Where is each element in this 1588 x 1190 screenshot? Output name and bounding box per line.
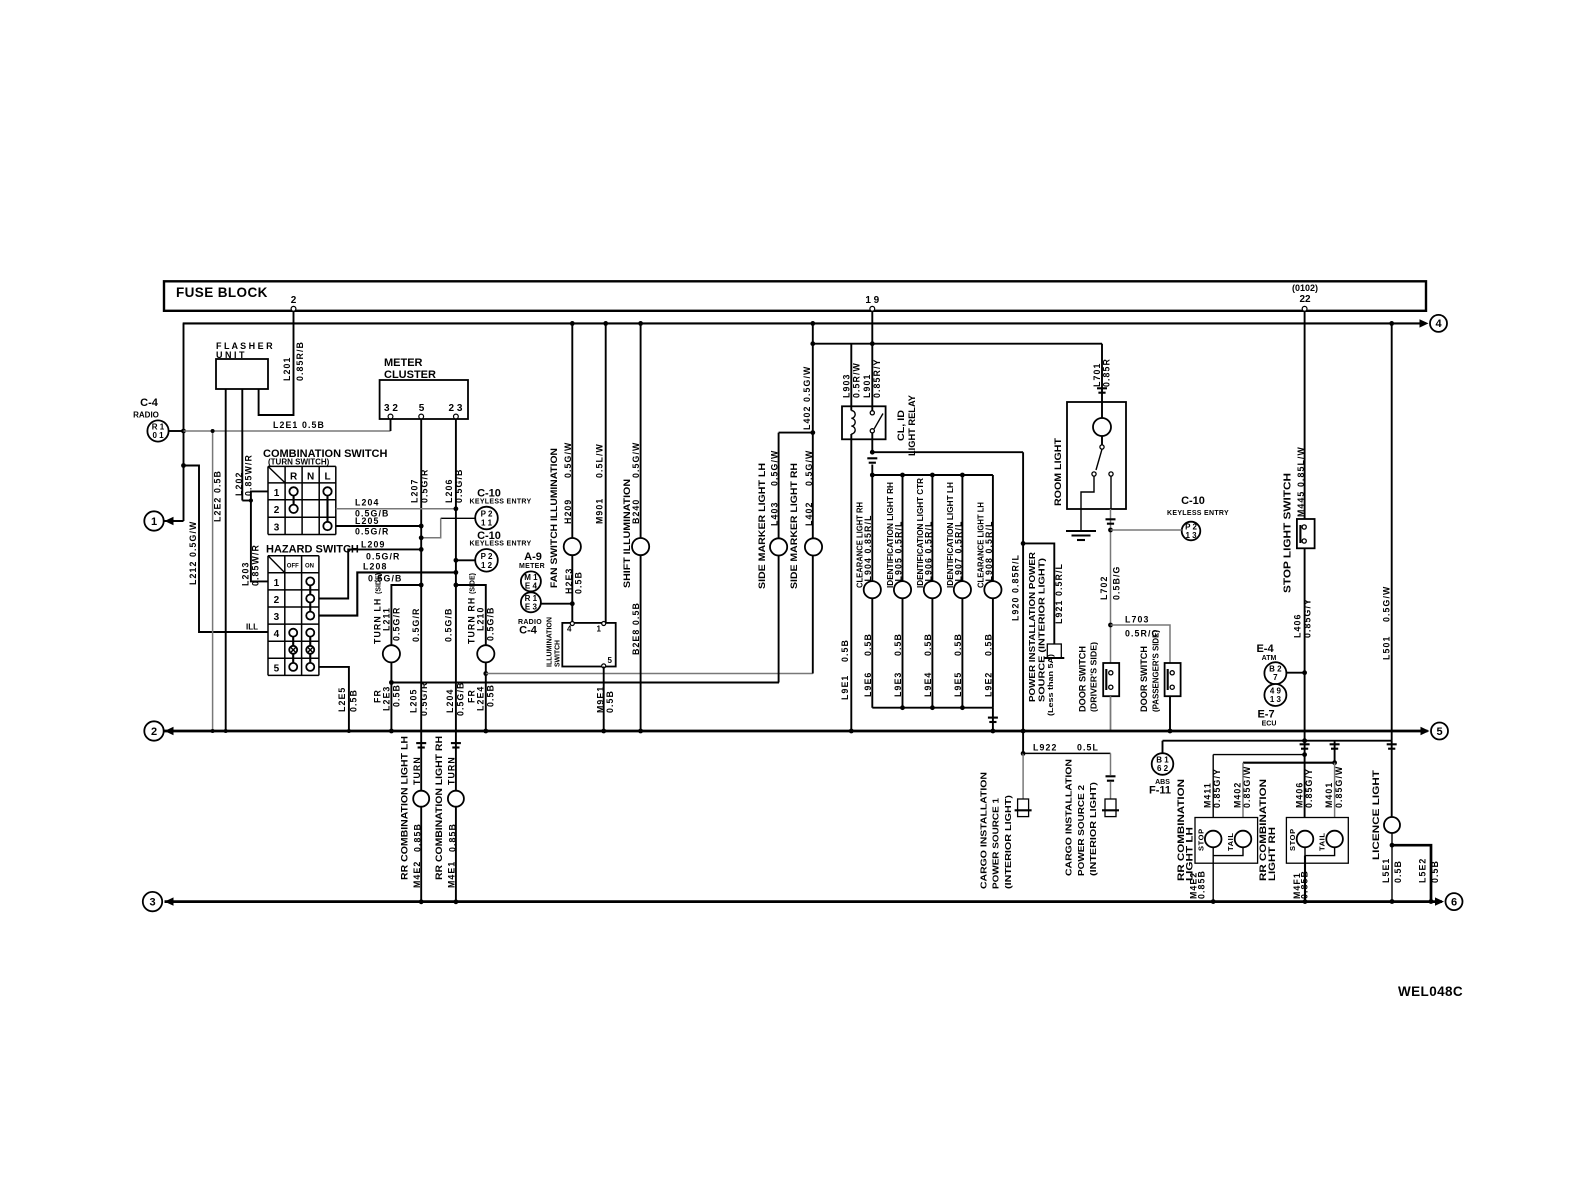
svg-text:L403: L403	[769, 502, 779, 526]
svg-text:2: 2	[274, 505, 280, 516]
arrow into node 1	[165, 517, 174, 525]
svg-text:DOOR SWITCH: DOOR SWITCH	[1139, 646, 1149, 712]
wire FR TURN RH branch	[456, 585, 486, 645]
svg-text:OFF: OFF	[287, 564, 299, 570]
svg-text:L906 0.5R/L: L906 0.5R/L	[923, 521, 933, 582]
svg-text:L9E3: L9E3	[893, 672, 903, 697]
fuse symbol cargo installation power source 1	[1018, 799, 1029, 817]
svg-text:1 3: 1 3	[1270, 695, 1282, 704]
wire E-4 to stop wire	[1286, 672, 1304, 674]
bus A horizontal	[183, 322, 1426, 324]
svg-text:CL, ID: CL, ID	[896, 410, 907, 441]
lamp column L907 IDENTIFICATION LIGHT LH	[961, 475, 963, 581]
svg-text:L204: L204	[445, 689, 455, 713]
svg-text:0.5B/G: 0.5B/G	[1112, 566, 1122, 600]
wire link FR TURN RH to side marker RH	[486, 673, 813, 675]
svg-text:STOP: STOP	[1288, 828, 1297, 851]
svg-text:0.5B: 0.5B	[984, 633, 994, 656]
svg-text:M402: M402	[1233, 782, 1243, 808]
svg-text:U N I T: U N I T	[216, 350, 245, 360]
svg-text:4: 4	[1435, 318, 1442, 330]
node 1	[144, 511, 163, 530]
svg-text:0.5B: 0.5B	[348, 689, 358, 712]
svg-text:(TURN SWITCH): (TURN SWITCH)	[268, 458, 330, 467]
wire FR TURN LH to bus2	[390, 662, 392, 731]
svg-text:L2E2 0.5B: L2E2 0.5B	[213, 470, 223, 522]
wire RR combination RH turn	[455, 731, 457, 790]
wire L920 0.85R/L	[1022, 452, 1024, 731]
svg-text:0.5B: 0.5B	[1393, 860, 1403, 883]
svg-text:(SIDE): (SIDE)	[375, 573, 382, 594]
stop light switch box	[1297, 519, 1315, 548]
svg-text:TAIL: TAIL	[1318, 832, 1327, 851]
svg-text:ON: ON	[305, 564, 314, 570]
svg-text:0.5G/R: 0.5G/R	[366, 552, 400, 562]
relay switch contacts	[871, 311, 873, 411]
wire R1/E3 to H2E3	[540, 603, 572, 605]
wire L206 from meter pin23 down to bus2	[455, 419, 457, 731]
svg-text:1: 1	[274, 488, 280, 499]
svg-text:0.5B: 0.5B	[953, 633, 963, 656]
svg-text:0.5B: 0.5B	[840, 639, 850, 662]
lamp column L906 IDENTIFICATION LIGHT CTR	[931, 475, 933, 581]
svg-text:1: 1	[597, 625, 602, 634]
svg-text:L208: L208	[363, 562, 387, 572]
svg-text:0.85R/Y: 0.85R/Y	[872, 359, 882, 399]
svg-text:5: 5	[608, 656, 613, 665]
svg-text:0.5B: 0.5B	[923, 633, 933, 656]
svg-text:METER: METER	[384, 357, 423, 369]
lamp column L908 CLEARANCE LIGHT LH	[992, 475, 994, 581]
svg-text:0.5G/W: 0.5G/W	[631, 442, 641, 478]
svg-text:0.85R: 0.85R	[1102, 358, 1112, 387]
svg-text:0.5R/W: 0.5R/W	[852, 362, 862, 398]
wire L501 0.5G/W from bus A	[1391, 323, 1393, 740]
svg-text:E-7: E-7	[1257, 709, 1274, 721]
svg-text:0.5G/W: 0.5G/W	[769, 450, 779, 486]
svg-text:RR COMBINATION LIGHT RH: RR COMBINATION LIGHT RH	[434, 736, 445, 880]
wire comb row1 to hazard row1	[251, 491, 268, 581]
wire FR TURN RH to bus2	[485, 662, 487, 731]
svg-text:(DRIVER'S SIDE): (DRIVER'S SIDE)	[1090, 642, 1099, 712]
svg-text:P 2: P 2	[481, 510, 493, 519]
wire L702 from room light	[1110, 476, 1112, 509]
door switch passenger side	[1165, 663, 1181, 696]
wire M4E2 RR LH to bus3	[1212, 856, 1214, 902]
wire stop branch to RR LH stop	[1213, 754, 1304, 756]
svg-text:DOOR SWITCH: DOOR SWITCH	[1078, 646, 1088, 712]
svg-text:ILL: ILL	[246, 623, 258, 632]
svg-text:L402 0.5G/W: L402 0.5G/W	[802, 366, 812, 430]
svg-text:7: 7	[1273, 673, 1278, 682]
svg-text:R: R	[290, 472, 298, 483]
combination switch grid	[267, 466, 269, 534]
svg-text:L5E2: L5E2	[1418, 858, 1428, 883]
lamp manifold top	[872, 474, 993, 476]
svg-text:L703: L703	[1125, 615, 1149, 625]
wire flasher left output to bus 2	[225, 389, 227, 731]
wire B2E8 to bus2	[640, 555, 642, 731]
svg-text:L205: L205	[355, 516, 379, 526]
svg-text:F-11: F-11	[1149, 785, 1171, 797]
svg-text:STOP LIGHT SWITCH: STOP LIGHT SWITCH	[1282, 473, 1294, 593]
svg-text:TAIL: TAIL	[1226, 832, 1235, 851]
svg-text:5: 5	[274, 663, 280, 674]
svg-text:0.85B: 0.85B	[1300, 870, 1310, 899]
wire RR combination LH turn	[420, 731, 422, 790]
svg-text:ROOM LIGHT: ROOM LIGHT	[1053, 438, 1064, 506]
svg-text:1 1: 1 1	[481, 519, 493, 528]
bulb FR TURN RH L210	[477, 645, 494, 662]
svg-text:L702: L702	[1099, 576, 1109, 600]
svg-text:L9E6: L9E6	[863, 672, 873, 697]
svg-text:CLUSTER: CLUSTER	[384, 369, 436, 381]
svg-text:0.85G/W: 0.85G/W	[1334, 766, 1344, 808]
room light box	[1067, 402, 1126, 509]
svg-text:0.5G/B: 0.5G/B	[456, 682, 466, 716]
svg-text:0.5G/B: 0.5G/B	[368, 574, 402, 584]
svg-text:0.5L: 0.5L	[1077, 742, 1099, 752]
wire M4F1 RR RH to bus3	[1304, 856, 1306, 902]
svg-text:0.5G/W: 0.5G/W	[804, 450, 814, 486]
svg-text:KEYLESS ENTRY: KEYLESS ENTRY	[1167, 510, 1229, 517]
svg-text:C-4: C-4	[140, 397, 159, 409]
wire L205 0.5G/R comb row3	[336, 525, 421, 527]
svg-text:L211: L211	[382, 607, 392, 631]
svg-text:L202: L202	[234, 472, 244, 496]
svg-text:H209: H209	[563, 499, 573, 524]
svg-text:1 9: 1 9	[865, 295, 879, 306]
svg-text:POWER INSTALLATION POWER: POWER INSTALLATION POWER	[1027, 552, 1037, 702]
svg-text:POWER SOURCE 1: POWER SOURCE 1	[991, 798, 1001, 889]
lamp column L905 IDENTIFICATION LIGHT RH	[902, 475, 904, 581]
svg-text:0.85G/W: 0.85G/W	[1242, 766, 1252, 808]
fuse symbol power installation source	[1047, 644, 1061, 658]
svg-text:3: 3	[274, 612, 280, 623]
wire RR RH tail drop	[1334, 763, 1336, 831]
wire L921 0.5R/L	[1023, 543, 1054, 644]
relay box CL ID light relay	[842, 406, 886, 439]
svg-text:0.85B: 0.85B	[413, 823, 423, 852]
svg-text:KEYLESS ENTRY: KEYLESS ENTRY	[470, 499, 532, 506]
svg-text:3: 3	[149, 896, 155, 908]
bulb side marker light RH L402	[805, 538, 822, 555]
bulb FR TURN LH L211	[383, 645, 400, 662]
svg-text:M4E2: M4E2	[412, 861, 422, 888]
svg-text:L201: L201	[282, 357, 292, 381]
svg-text:(INTERIOR LIGHT): (INTERIOR LIGHT)	[1003, 795, 1013, 889]
svg-text:L204: L204	[355, 498, 379, 508]
wire clearance return to bus2	[992, 708, 994, 731]
connector F-11 ABS B1/62	[1152, 753, 1174, 775]
svg-text:L9E5: L9E5	[953, 672, 963, 697]
svg-text:L904 0.85R/L: L904 0.85R/L	[863, 515, 873, 582]
fuse block	[164, 281, 1426, 311]
meter cluster	[380, 380, 468, 419]
connector E-7 ECU	[1264, 684, 1286, 706]
wire L701 drop	[1101, 344, 1103, 402]
svg-text:0.5B: 0.5B	[605, 690, 615, 713]
svg-text:L2E5: L2E5	[337, 687, 347, 712]
svg-text:ILLUMINATION: ILLUMINATION	[547, 617, 554, 667]
wire driver door to bus2	[1110, 696, 1112, 731]
wire L406 0.85G/Y stop down	[1304, 548, 1306, 830]
wire L2E1 0.5B meter feed	[184, 430, 391, 432]
svg-text:0.5B: 0.5B	[392, 684, 402, 707]
RR combination light LH box	[1195, 818, 1258, 864]
wire L204 0.5G/B comb row2	[336, 508, 456, 510]
svg-text:L9E2: L9E2	[984, 672, 994, 697]
svg-text:0.5G/W: 0.5G/W	[1382, 586, 1392, 622]
connector on L901 wire	[867, 457, 877, 459]
wire to F-11 ABS	[1162, 741, 1164, 754]
svg-text:0.85W/R: 0.85W/R	[251, 544, 261, 586]
svg-text:L402: L402	[804, 502, 814, 526]
svg-text:CARGO INSTALLATION: CARGO INSTALLATION	[1064, 759, 1074, 876]
svg-text:L5E1: L5E1	[1381, 858, 1391, 883]
wire H2E3 to illumination switch pin4	[571, 555, 573, 623]
svg-text:SWITCH: SWITCH	[555, 640, 562, 667]
svg-text:METER: METER	[519, 563, 545, 570]
svg-text:0 1: 0 1	[152, 431, 164, 440]
svg-text:L212 0.5G/W: L212 0.5G/W	[188, 521, 198, 585]
svg-text:C-10: C-10	[1181, 495, 1205, 507]
arrow to node 6	[1435, 897, 1444, 905]
svg-text:KEYLESS ENTRY: KEYLESS ENTRY	[470, 541, 532, 548]
lamp manifold bottom	[872, 707, 993, 709]
svg-text:L2E1 0.5B: L2E1 0.5B	[273, 420, 325, 430]
bulb shift illumination B240	[632, 538, 649, 555]
svg-text:A-9: A-9	[524, 551, 542, 563]
svg-text:L9E1: L9E1	[840, 675, 850, 700]
connector marks below bus2 stop wire	[1300, 743, 1310, 745]
svg-text:3 2: 3 2	[384, 403, 398, 414]
wire L207 from meter pin5 down to bus2	[420, 419, 422, 731]
svg-text:0.85B: 0.85B	[1197, 870, 1207, 899]
svg-text:0.5G/W: 0.5G/W	[563, 442, 573, 478]
wire M901 shift illumination feed	[605, 323, 607, 623]
svg-text:B2E8 0.5B: B2E8 0.5B	[631, 602, 641, 655]
wire stop light feed from fuse pin 22	[1304, 311, 1306, 519]
wire keyless P2/12 to L206	[456, 559, 475, 561]
arrow into node 3	[165, 897, 174, 905]
node 2	[144, 721, 163, 740]
svg-text:0.5G/R: 0.5G/R	[420, 469, 430, 503]
wire side marker LH down	[778, 556, 780, 683]
lamp column L904 CLEARANCE LIGHT RH	[871, 475, 873, 581]
svg-text:L209: L209	[361, 540, 385, 550]
svg-text:POWER SOURCE 2: POWER SOURCE 2	[1076, 785, 1086, 876]
svg-text:L: L	[324, 472, 330, 483]
svg-text:0.85R/B: 0.85R/B	[295, 341, 305, 381]
svg-text:ATM: ATM	[1262, 655, 1277, 662]
bulb side marker light LH L403	[770, 538, 787, 555]
svg-text:0.85G/Y: 0.85G/Y	[1212, 768, 1222, 808]
flasher unit	[216, 359, 268, 389]
svg-text:L9E4: L9E4	[923, 672, 933, 697]
svg-text:SIDE MARKER LIGHT LH: SIDE MARKER LIGHT LH	[757, 463, 768, 589]
svg-text:22: 22	[1299, 294, 1311, 305]
wire to lamp manifold	[871, 465, 873, 476]
bulb RR LH stop M411	[1205, 831, 1222, 848]
node 3	[143, 892, 162, 911]
wire tee to side marker LH	[779, 432, 813, 434]
comb contacts R column	[289, 487, 297, 495]
svg-text:TURN: TURN	[447, 756, 457, 785]
arrow into node 2	[165, 727, 174, 735]
wire H209 fan switch illumination	[571, 323, 573, 537]
svg-text:(PASSENGER'S SIDE): (PASSENGER'S SIDE)	[1152, 630, 1161, 712]
svg-text:2 3: 2 3	[449, 403, 463, 414]
ground	[1066, 530, 1096, 532]
wire link FR TURN LH to side marker LH	[391, 682, 779, 684]
svg-text:L920 0.85R/L: L920 0.85R/L	[1011, 554, 1021, 621]
wire tail feed horizontal	[1163, 740, 1392, 742]
bulb RR LH tail M402	[1235, 831, 1252, 848]
svg-text:P 2: P 2	[481, 552, 493, 561]
wire L5E2 jog to bus3	[1392, 845, 1431, 901]
arrow to node 4	[1420, 319, 1429, 327]
svg-text:LICENCE LIGHT: LICENCE LIGHT	[1371, 770, 1382, 860]
svg-text:1 2: 1 2	[481, 561, 493, 570]
svg-text:1: 1	[151, 516, 157, 528]
wire R1/01 to vertical	[169, 430, 184, 432]
arrow to node 5	[1421, 727, 1430, 735]
svg-text:SOURCE (INTERIOR LIGHT): SOURCE (INTERIOR LIGHT)	[1036, 558, 1046, 702]
RR combination light RH box	[1286, 818, 1348, 864]
RR RH internal wiring	[1305, 847, 1335, 855]
svg-text:0.5B: 0.5B	[893, 633, 903, 656]
svg-text:L206: L206	[444, 479, 454, 503]
svg-text:2: 2	[151, 726, 157, 738]
wire L402 riser from bus A	[812, 323, 814, 673]
wire keyless P2/13	[1111, 529, 1182, 531]
hazard contacts ON column	[306, 577, 314, 585]
svg-text:E 3: E 3	[525, 603, 538, 612]
svg-text:0.5G/R: 0.5G/R	[411, 608, 421, 642]
svg-text:(0102): (0102)	[1292, 283, 1318, 293]
svg-text:LIGHT RH: LIGHT RH	[1267, 827, 1278, 881]
door switch driver side	[1103, 663, 1119, 696]
svg-text:ECU: ECU	[1262, 721, 1277, 728]
fuse symbol cargo installation power source 2	[1105, 799, 1116, 817]
svg-text:3: 3	[274, 523, 280, 534]
svg-text:L501: L501	[1382, 636, 1392, 660]
svg-text:4: 4	[274, 629, 280, 640]
svg-text:2: 2	[291, 295, 297, 306]
svg-text:0.85G/Y: 0.85G/Y	[1302, 598, 1312, 638]
svg-text:5: 5	[1436, 726, 1442, 738]
room light bulb	[1101, 402, 1103, 418]
wire ILL feed L212	[184, 466, 269, 633]
svg-text:0.5G/B: 0.5G/B	[454, 469, 464, 503]
svg-text:TURN: TURN	[412, 756, 422, 785]
svg-text:RADIO: RADIO	[133, 411, 159, 420]
wire licence light drop	[1391, 741, 1393, 817]
svg-text:(Less than 5A): (Less than 5A)	[1048, 654, 1055, 716]
svg-text:L2E4: L2E4	[476, 686, 486, 711]
svg-text:6 2: 6 2	[1157, 764, 1169, 773]
wire L903 relay to bus2	[850, 434, 852, 439]
node 4	[1430, 315, 1447, 332]
bus2 junction dots	[211, 729, 215, 733]
svg-text:0.5G/B: 0.5G/B	[486, 607, 496, 641]
svg-text:CARGO INSTALLATION: CARGO INSTALLATION	[979, 772, 989, 889]
svg-text:M411: M411	[1203, 782, 1213, 808]
hazard switch grid	[267, 556, 269, 676]
room light switch arm to ground	[1081, 476, 1094, 531]
relay coil L903	[850, 344, 852, 411]
svg-text:1 3: 1 3	[1185, 531, 1197, 540]
svg-text:M406: M406	[1295, 782, 1305, 808]
wire tail drop to RR lights	[1334, 741, 1336, 763]
connector RADIO C-4 R1/E3	[521, 592, 541, 612]
wire flasher right output L202	[241, 389, 243, 501]
svg-text:L903: L903	[841, 374, 851, 398]
illumination switch box	[562, 623, 615, 667]
svg-text:N: N	[307, 472, 314, 483]
bulb RR combination light RH turn M4E1	[448, 791, 464, 807]
svg-text:L921 0.5R/L: L921 0.5R/L	[1054, 563, 1064, 624]
wire L201 from fuse pin 2 to flasher	[259, 311, 294, 415]
svg-text:0.5G/R: 0.5G/R	[419, 682, 429, 716]
svg-text:0.5B: 0.5B	[1430, 860, 1440, 883]
svg-text:M4E1: M4E1	[447, 861, 457, 888]
vertical wire from bus A to node1 arrow	[183, 323, 185, 521]
RR LH internal wiring	[1213, 847, 1243, 855]
wire passenger door to bus2	[1169, 696, 1171, 731]
svg-text:L210: L210	[476, 607, 486, 631]
comb contacts L column	[323, 487, 331, 495]
bus 2 horizontal	[165, 730, 1428, 733]
svg-text:C-4: C-4	[519, 625, 538, 637]
wire L209 0.5G/R hazard row2	[319, 549, 421, 598]
bulb RR combination light LH turn M4E2	[413, 791, 429, 807]
wire L920 below bus2 to cargo source 1	[1022, 731, 1024, 753]
svg-text:L203: L203	[241, 562, 251, 586]
wire L922 0.5L	[1023, 752, 1110, 754]
room light switch	[1096, 449, 1102, 470]
svg-text:L905 0.5R/L: L905 0.5R/L	[893, 521, 903, 582]
svg-text:6: 6	[1451, 896, 1457, 908]
svg-text:WEL048C: WEL048C	[1398, 984, 1463, 999]
svg-text:1: 1	[274, 578, 280, 589]
wire relay output branch to power installation	[872, 451, 1023, 453]
svg-text:2: 2	[274, 595, 280, 606]
svg-text:STOP: STOP	[1197, 828, 1206, 851]
svg-text:0.5L/W: 0.5L/W	[595, 443, 605, 478]
svg-text:0.5G/R: 0.5G/R	[392, 607, 402, 641]
svg-text:0.5G/B: 0.5G/B	[443, 608, 453, 642]
wire L5E1 to bus3	[1391, 833, 1393, 902]
svg-text:RR COMBINATION LIGHT LH: RR COMBINATION LIGHT LH	[400, 736, 411, 880]
wire L703 to passenger door switch	[1108, 623, 1113, 628]
svg-text:0.5B: 0.5B	[486, 684, 496, 707]
bulb RR RH stop M406	[1297, 831, 1314, 848]
node 5	[1431, 723, 1448, 740]
svg-text:L922: L922	[1033, 742, 1057, 752]
svg-text:0.85W/R: 0.85W/R	[244, 454, 254, 496]
svg-text:B240: B240	[631, 499, 641, 524]
svg-text:E 4: E 4	[525, 582, 538, 591]
svg-text:LIGHT RELAY: LIGHT RELAY	[907, 394, 918, 456]
svg-text:L908 0.5R/L: L908 0.5R/L	[984, 520, 994, 581]
svg-text:0.85B: 0.85B	[447, 823, 457, 852]
hazard contacts OFF column	[289, 629, 297, 637]
svg-text:M901: M901	[595, 498, 605, 524]
svg-text:L406: L406	[1292, 614, 1302, 638]
wire FR TURN LH branch	[391, 585, 421, 645]
